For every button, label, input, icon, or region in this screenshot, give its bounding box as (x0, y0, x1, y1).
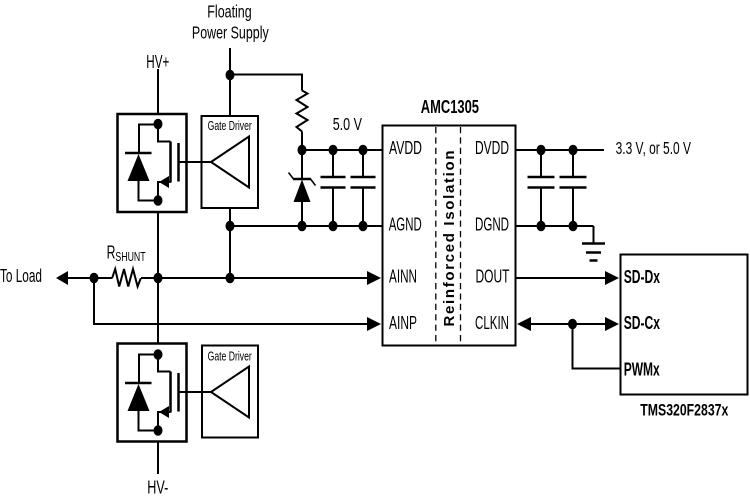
junction: Q1 emitter dot (154, 195, 163, 206)
junction: AGND at zener (298, 221, 307, 232)
junction: AGND at C1 (329, 221, 338, 232)
wire: DOUT to SD-Dx (515, 277, 608, 279)
junction: AVDD at C1 (329, 145, 338, 156)
transistor Q2 (IGBT, lower module) (158, 353, 179, 431)
junction: DVDD at C4 (569, 145, 578, 156)
wire: floating supply vertical into gate driver U2 (229, 48, 231, 116)
wire: AGND to AINN link (229, 226, 231, 278)
svg-text:Gate Driver: Gate Driver (208, 348, 253, 363)
wire: HV- rail below lower module (157, 441, 159, 474)
transistor Q1 (IGBT, upper module) (158, 123, 179, 201)
diode D3 (freewheel, lower module) (125, 355, 158, 431)
wire: supply branch to bias resistor (230, 75, 302, 91)
wire: DVDD rail (515, 149, 604, 151)
buffer triangle U2 (211, 137, 249, 188)
junction: Q1 collector dot (154, 119, 163, 130)
wire: PWMx branch (573, 324, 621, 369)
ground symbol (582, 226, 605, 261)
AMC1305 U1 box (383, 126, 516, 346)
wire: AINP branch (94, 278, 370, 324)
junction: DVDD at C3 (537, 145, 546, 156)
arrow: to load (left) (56, 271, 68, 285)
junction: DGND at C3 (537, 221, 546, 232)
svg-text:AGND: AGND (389, 214, 422, 234)
svg-text:DOUT: DOUT (476, 267, 510, 287)
IGBT module Q2 box (118, 344, 187, 442)
wire: AVDD rail (302, 149, 383, 151)
svg-text:TMS320F2837x: TMS320F2837x (640, 400, 728, 419)
svg-text:To Load: To Load (0, 266, 42, 286)
svg-text:AINN: AINN (389, 267, 417, 287)
zener diode D1 (289, 150, 316, 226)
capacitor C1 (321, 150, 346, 226)
junction: AINN line at HV rail (154, 273, 163, 284)
svg-text:DGND: DGND (475, 214, 509, 234)
wire: resistor to AVDD node (301, 132, 303, 152)
wire: HV rail between modules (157, 212, 159, 344)
junction: floating supply node (226, 70, 235, 81)
arrow: into AINP pin (367, 317, 381, 331)
wire: Q1 gate lead (180, 161, 212, 163)
wire: DGND rail (515, 225, 594, 227)
svg-text:PWMx: PWMx (624, 359, 660, 379)
svg-text:AINP: AINP (389, 313, 417, 333)
wire: AGND rail (229, 225, 383, 227)
buffer triangle U3 (211, 367, 249, 418)
arrow: into CLKIN (517, 317, 531, 331)
svg-text:R: R (107, 243, 116, 263)
svg-text:3.3 V, or 5.0 V: 3.3 V, or 5.0 V (616, 138, 692, 158)
svg-text:SD-Dx: SD-Dx (624, 267, 660, 287)
junction: AVDD at C2 (359, 145, 368, 156)
wire: shunt line (AINN net) (66, 277, 112, 279)
junction: AINN line at AGND link (226, 273, 235, 284)
capacitor C3 (528, 150, 555, 226)
wire: CLKIN to SD-Cx (530, 323, 608, 325)
svg-text:5.0 V: 5.0 V (333, 114, 363, 134)
isolation barrier dashed line (right) (460, 127, 462, 345)
gate driver U2 box (202, 116, 259, 208)
IGBT module Q1 box (118, 114, 187, 212)
arrow: into SD-Cx (605, 317, 619, 331)
arrow: into SD-Dx (605, 271, 619, 285)
resistor RSHUNT (112, 269, 141, 287)
wire: gate driver U2 bottom to AGND (229, 208, 231, 226)
svg-text:Reinforced Isolation: Reinforced Isolation (441, 151, 458, 327)
junction: clock line at PWM branch (568, 319, 577, 330)
junction: AGND at gate driver (226, 221, 235, 232)
svg-text:AVDD: AVDD (389, 138, 422, 158)
svg-text:Gate Driver: Gate Driver (208, 118, 253, 133)
MCU TMS320F2837x box (621, 255, 748, 395)
svg-text:DVDD: DVDD (475, 138, 509, 158)
svg-text:SHUNT: SHUNT (115, 249, 145, 264)
svg-text:Power Supply: Power Supply (192, 23, 269, 43)
svg-text:AMC1305: AMC1305 (421, 97, 479, 117)
diode D2 (freewheel, upper module) (125, 125, 158, 201)
junction: Q2 collector dot (154, 349, 163, 360)
wire: Q2 gate lead (180, 391, 212, 393)
wire: HV+ rail into upper module (157, 69, 159, 114)
arrow: into AINN pin (367, 271, 381, 285)
svg-text:HV-: HV- (147, 478, 168, 498)
isolation barrier dashed line (left) (435, 127, 437, 345)
capacitor C4 (560, 150, 587, 226)
junction: Q2 emitter dot (154, 425, 163, 436)
junction: AINN line at AINP branch (90, 273, 99, 284)
junction: AVDD at zener (298, 145, 307, 156)
svg-text:CLKIN: CLKIN (475, 313, 509, 333)
svg-text:SD-Cx: SD-Cx (624, 313, 660, 333)
resistor R1 (bias, vertical zigzag) (297, 91, 308, 132)
gate driver U3 box (202, 346, 258, 438)
capacitor C2 (351, 150, 376, 226)
svg-text:Floating: Floating (207, 1, 251, 21)
junction: AGND at C2 (359, 221, 368, 232)
junction: DGND at C4 (569, 221, 578, 232)
